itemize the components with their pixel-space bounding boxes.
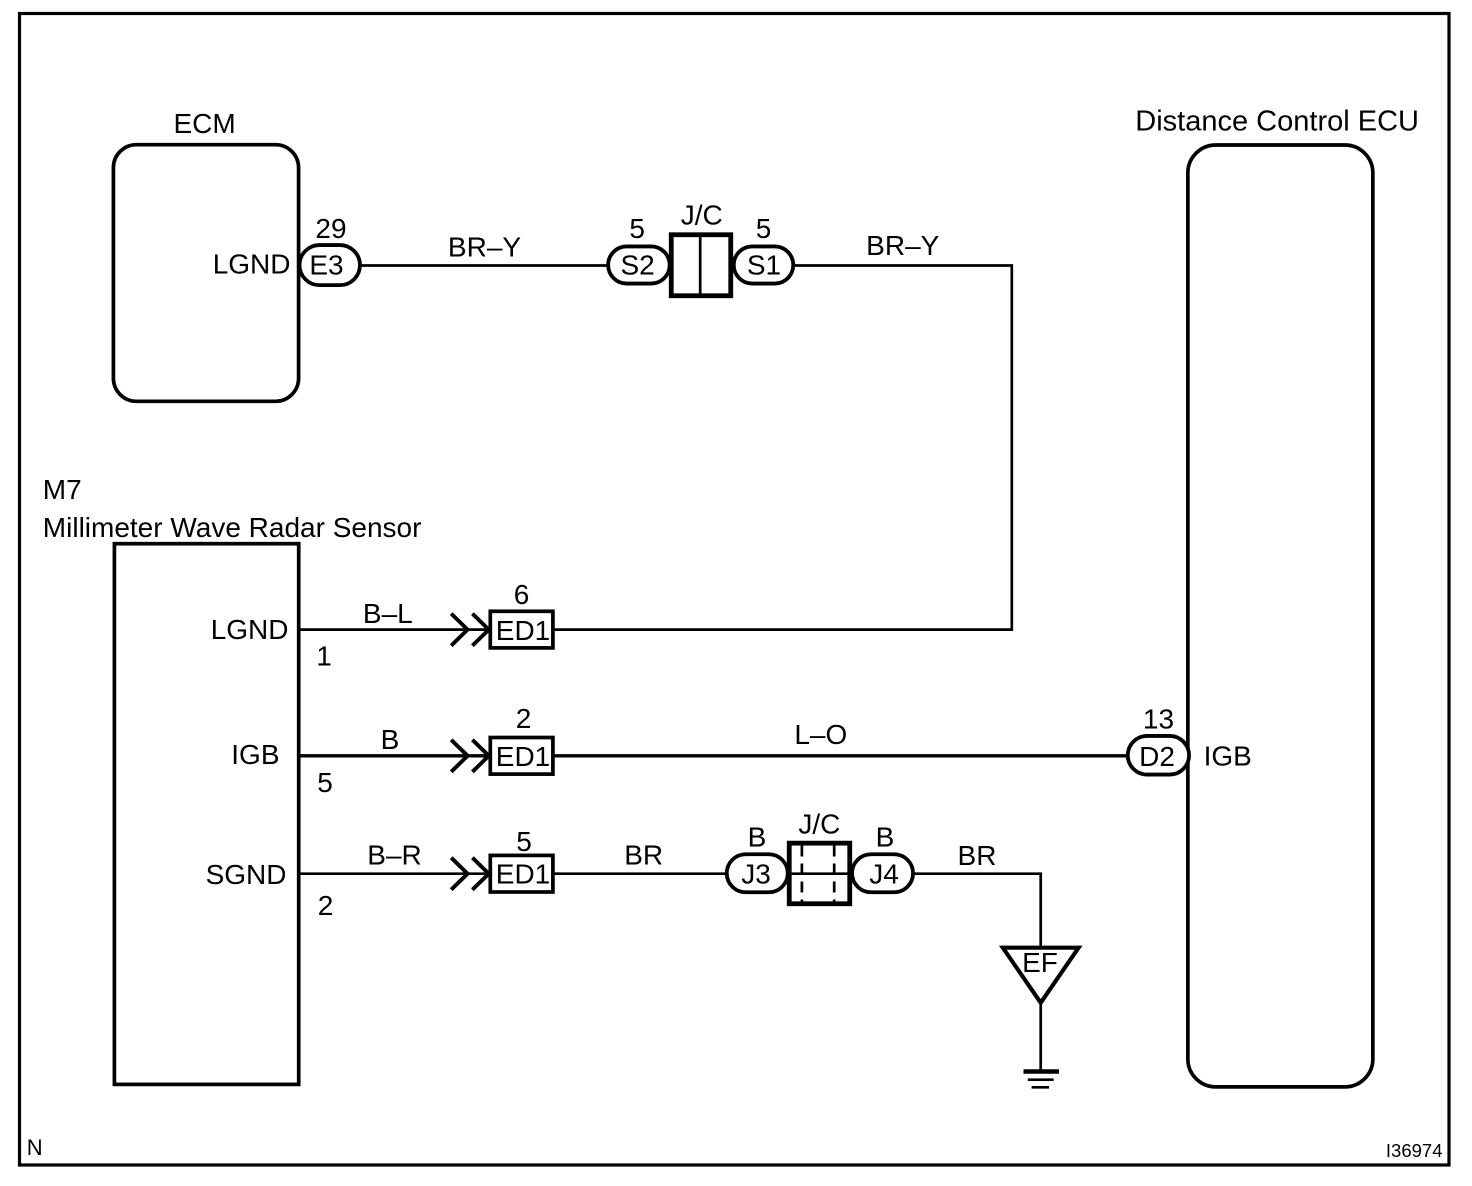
wire BR-Y from E3 to S2 xyxy=(360,264,608,267)
svg-text:B–L: B–L xyxy=(363,598,413,629)
svg-text:ED1: ED1 xyxy=(496,859,550,890)
svg-text:BR–Y: BR–Y xyxy=(866,230,939,261)
svg-text:5: 5 xyxy=(317,767,333,798)
splice S1 oval xyxy=(734,246,794,283)
svg-text:E3: E3 xyxy=(309,250,343,281)
svg-text:J3: J3 xyxy=(741,859,771,890)
svg-text:ED1: ED1 xyxy=(496,615,550,646)
svg-text:J/C: J/C xyxy=(798,809,840,840)
svg-text:ED1: ED1 xyxy=(496,741,550,772)
junction connector J/C top box xyxy=(671,235,731,296)
svg-text:ECM: ECM xyxy=(174,108,236,139)
svg-text:M7: M7 xyxy=(43,474,82,505)
svg-text:B: B xyxy=(381,724,400,755)
svg-text:5: 5 xyxy=(629,213,645,244)
connector oval E3 xyxy=(300,245,360,285)
shield arrows LGND row xyxy=(451,614,489,646)
svg-text:D2: D2 xyxy=(1139,741,1175,772)
wire B IGB row left segment xyxy=(299,754,490,757)
svg-text:2: 2 xyxy=(318,890,334,921)
wire across bottom J/C box xyxy=(789,872,850,875)
shield arrows IGB row xyxy=(451,740,489,772)
J/C bottom dashed divider lines xyxy=(802,846,834,902)
connector ED1 box SGND row xyxy=(490,855,553,892)
svg-text:2: 2 xyxy=(516,703,532,734)
wire B-R SGND row left segment xyxy=(299,872,490,875)
wire LGND row right segment to ED1 xyxy=(553,628,1013,631)
svg-text:L–O: L–O xyxy=(794,719,847,750)
splice J4 oval xyxy=(852,854,913,892)
wire B-L LGND row left segment xyxy=(299,628,490,631)
svg-text:BR–Y: BR–Y xyxy=(448,232,521,263)
svg-text:1: 1 xyxy=(316,641,332,672)
wire BR SGND row middle segment ED1 to J3 xyxy=(553,872,727,875)
connector oval D2 xyxy=(1128,736,1189,775)
svg-text:B–R: B–R xyxy=(367,840,421,871)
svg-text:Distance Control ECU: Distance Control ECU xyxy=(1135,106,1419,138)
svg-text:13: 13 xyxy=(1143,704,1174,735)
svg-text:EF: EF xyxy=(1022,947,1058,978)
svg-text:IGB: IGB xyxy=(231,739,279,770)
svg-text:5: 5 xyxy=(516,826,532,857)
svg-text:IGB: IGB xyxy=(1204,741,1252,772)
svg-text:LGND: LGND xyxy=(213,249,291,280)
svg-text:S2: S2 xyxy=(620,250,654,281)
ECM box xyxy=(113,145,298,402)
svg-text:I36974: I36974 xyxy=(1386,1140,1443,1161)
svg-text:J4: J4 xyxy=(869,859,899,890)
wire through bottom J/C box xyxy=(787,872,854,875)
wire BR from J4 to ground corner xyxy=(913,872,1042,875)
svg-text:B: B xyxy=(876,822,895,853)
wire BR-Y vertical segment xyxy=(1010,264,1013,630)
svg-text:B: B xyxy=(748,822,767,853)
svg-text:N: N xyxy=(27,1135,43,1160)
splice J3 oval xyxy=(727,854,788,892)
splice S2 oval xyxy=(608,246,670,283)
svg-text:SGND: SGND xyxy=(206,859,287,890)
svg-text:29: 29 xyxy=(315,213,346,244)
wire vertical down to EF triangle xyxy=(1039,873,1042,949)
wire L-O IGB row right segment to D2 xyxy=(553,754,1128,757)
shield arrows SGND row xyxy=(451,858,489,890)
J/C top inner divider line xyxy=(699,237,702,296)
svg-text:J/C: J/C xyxy=(681,200,723,231)
svg-text:5: 5 xyxy=(756,213,772,244)
junction connector J/C bottom box xyxy=(789,843,850,904)
Distance Control ECU box xyxy=(1188,145,1373,1087)
svg-text:6: 6 xyxy=(514,579,530,610)
svg-text:LGND: LGND xyxy=(211,614,289,645)
M7 radar sensor box xyxy=(114,544,298,1085)
ground shield EF triangle xyxy=(1003,948,1079,1003)
svg-text:S1: S1 xyxy=(747,250,781,281)
svg-text:BR: BR xyxy=(958,840,997,871)
svg-text:Millimeter Wave Radar Sensor: Millimeter Wave Radar Sensor xyxy=(43,512,422,543)
wire BR-Y from S1 to corner xyxy=(793,264,1013,267)
svg-text:BR: BR xyxy=(624,840,663,871)
connector ED1 box IGB row xyxy=(490,738,553,775)
wire EF triangle to ground xyxy=(1039,1001,1042,1070)
connector ED1 box LGND row xyxy=(490,611,553,648)
ground symbol xyxy=(1024,1072,1060,1088)
